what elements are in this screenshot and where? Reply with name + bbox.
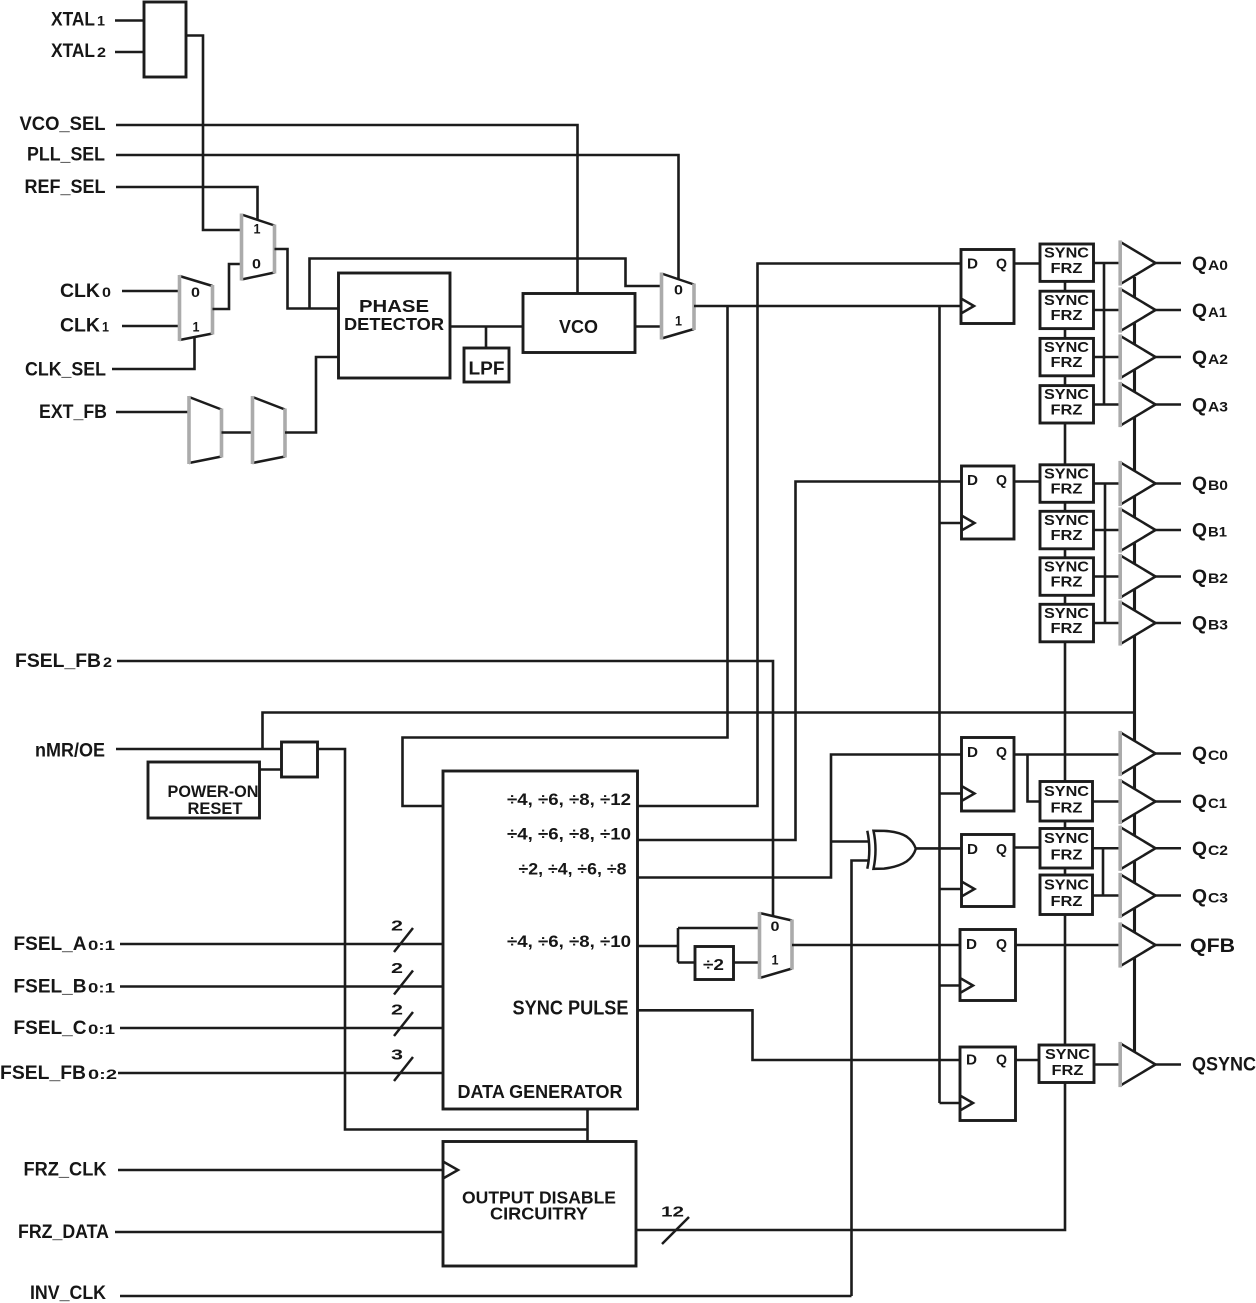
- sync/frz block B1: [1040, 511, 1094, 549]
- sync/frz block B2: [1040, 558, 1094, 596]
- flip-flop FF-B: [962, 466, 1015, 539]
- sync/frz block C2: [1040, 829, 1093, 869]
- output buffer QC1: [1120, 780, 1156, 823]
- svg-text:Q: Q: [1192, 396, 1207, 417]
- wire FF-C1 clock stub: [940, 792, 962, 795]
- crystal oscillator box: [144, 2, 186, 77]
- svg-text:FRZ: FRZ: [1051, 401, 1083, 418]
- svg-text:0: 0: [252, 256, 261, 272]
- wire sync/frz A outputs to buffers: [1094, 262, 1120, 265]
- svg-text:1: 1: [675, 313, 682, 329]
- mux U1 reference select body: [242, 215, 275, 280]
- wire INV_CLK input: [120, 1295, 852, 1298]
- svg-text:Q: Q: [1192, 474, 1207, 495]
- wire sync/frz B outputs to buffers: [1094, 482, 1120, 485]
- wire row4 split vertical: [677, 928, 680, 963]
- svg-text:A2: A2: [1208, 351, 1228, 367]
- VCO box: [523, 294, 635, 353]
- svg-text:1: 1: [193, 319, 200, 335]
- svg-text:INV_CLK: INV_CLK: [30, 1283, 106, 1303]
- svg-text:1: 1: [102, 319, 109, 335]
- svg-text:Q: Q: [1192, 348, 1207, 369]
- svg-text:REF_SEL: REF_SEL: [25, 177, 106, 198]
- svg-text:SYNC: SYNC: [1045, 1046, 1090, 1063]
- svg-text:0: 0: [191, 284, 200, 300]
- svg-text:EXT_FB: EXT_FB: [39, 402, 107, 423]
- svg-text:Q: Q: [996, 256, 1007, 273]
- svg-text:1: 1: [772, 952, 779, 968]
- svg-text:Q: Q: [1192, 301, 1207, 322]
- svg-text:FRZ: FRZ: [1051, 574, 1083, 591]
- divide-by-2 box: [695, 947, 734, 980]
- output buffer QB3: [1120, 601, 1156, 644]
- sync/frz block A1: [1040, 291, 1094, 328]
- wire gate square output to output disable: [318, 749, 588, 1130]
- svg-text:Q: Q: [1192, 839, 1207, 860]
- gate square U6: [282, 742, 318, 777]
- svg-text:Q: Q: [996, 841, 1007, 858]
- output buffer QC2: [1120, 827, 1156, 870]
- svg-text:FRZ: FRZ: [1051, 799, 1083, 816]
- svg-text:SYNC: SYNC: [1044, 830, 1089, 847]
- wire sync/frz C3 output to buffer: [1093, 894, 1120, 897]
- wire row4 to divider select: [638, 945, 679, 948]
- wire FF-B clock stub: [940, 522, 962, 525]
- svg-text:A0: A0: [1208, 257, 1228, 273]
- wire FSEL_C0:1 input: [120, 1027, 443, 1030]
- svg-text:FRZ: FRZ: [1051, 354, 1083, 371]
- bus slash FSEL_B: [394, 971, 413, 995]
- buffer B2 ext feedback body: [253, 397, 286, 463]
- svg-text:B1: B1: [1208, 524, 1227, 540]
- wire QC buffer input bus: [1102, 848, 1105, 895]
- wire QB divider net row2 to QB flipflop D: [638, 482, 962, 841]
- svg-text:FRZ: FRZ: [1051, 307, 1083, 324]
- output buffer QB1: [1120, 508, 1156, 551]
- svg-text:Q: Q: [996, 744, 1007, 761]
- svg-text:2: 2: [391, 960, 403, 977]
- output buffer QSYNC: [1120, 1043, 1156, 1086]
- wire PLL_SEL net: [116, 155, 679, 279]
- wire phase detector output to VCO: [450, 325, 523, 328]
- wire divide-by-2 output to mux U5 input 1: [733, 961, 760, 964]
- wire CLK_SEL net: [112, 337, 195, 369]
- wire VCO_SEL net: [116, 125, 578, 294]
- XOR gate U7: [874, 831, 916, 869]
- svg-text:A1: A1: [1208, 304, 1227, 320]
- wire XOR output to QC flipflop2 D: [916, 847, 962, 850]
- wire sync/frz C2 output to buffer: [1093, 847, 1120, 850]
- svg-text:B2: B2: [1208, 570, 1228, 586]
- wire node ref tee up to bypass line: [310, 259, 662, 309]
- wire 12-bit freeze bus: [636, 1083, 1065, 1231]
- svg-text:Q: Q: [1192, 614, 1207, 635]
- svg-text:Q: Q: [996, 472, 1007, 489]
- svg-text:VCO_SEL: VCO_SEL: [20, 114, 106, 135]
- svg-text:FRZ: FRZ: [1051, 620, 1083, 637]
- svg-text:FRZ: FRZ: [1052, 1062, 1084, 1079]
- svg-text:1: 1: [97, 13, 105, 29]
- svg-text:FSEL_B: FSEL_B: [14, 977, 87, 998]
- wire main clock net from mux U4 to QA flipflop clock: [694, 305, 961, 308]
- output buffer QB2: [1120, 555, 1156, 598]
- svg-text:D: D: [967, 841, 978, 858]
- svg-text:÷2: ÷2: [703, 957, 724, 974]
- mux U4 pll bypass body: [662, 274, 695, 339]
- sync/frz chain vertical QA group: [1064, 281, 1067, 291]
- wire SYNC PULSE net to QSYNC flipflop D: [638, 1010, 961, 1060]
- svg-text:FSEL_A: FSEL_A: [14, 934, 87, 955]
- svg-text:DETECTOR: DETECTOR: [344, 314, 444, 334]
- svg-text:FRZ_CLK: FRZ_CLK: [24, 1160, 107, 1181]
- svg-text:FSEL_C: FSEL_C: [14, 1018, 87, 1039]
- svg-text:DATA GENERATOR: DATA GENERATOR: [458, 1082, 623, 1102]
- svg-text:FRZ: FRZ: [1051, 846, 1083, 863]
- wire XTAL2 input: [115, 51, 144, 54]
- svg-text:1: 1: [254, 221, 261, 237]
- svg-text:QSYNC: QSYNC: [1192, 1055, 1256, 1076]
- wire VCO output to mux U4 input 1: [635, 325, 662, 328]
- wire XOR top input branch: [831, 840, 869, 843]
- svg-text:2: 2: [391, 1002, 403, 1019]
- flip-flop FF-A: [961, 250, 1014, 324]
- wire mux U5 output to QFB flipflop D: [792, 944, 960, 947]
- wire nMR/OE tee to output enable rail: [263, 713, 1135, 750]
- wire EXT_FB input: [116, 411, 189, 414]
- wire FF-C1 Q to QC0 buffer: [1014, 753, 1120, 756]
- svg-text:C3: C3: [1208, 890, 1228, 906]
- svg-text:D: D: [967, 472, 978, 489]
- wire POR to gate square: [260, 768, 282, 771]
- wire FF-SYNC clock stub: [940, 1102, 961, 1105]
- svg-text:0:2: 0:2: [88, 1066, 117, 1082]
- bus slash FSEL_C: [394, 1012, 413, 1036]
- sync/frz block C3: [1040, 875, 1093, 915]
- svg-text:nMR/OE: nMR/OE: [35, 741, 105, 762]
- wire FRZ_CLK input: [118, 1169, 443, 1172]
- svg-text:RESET: RESET: [188, 800, 243, 818]
- wire FSEL_FB2 net to mux U5 select: [117, 661, 773, 918]
- bus slash FSEL_FB: [394, 1057, 413, 1081]
- wire FF-FB clock stub: [940, 984, 961, 987]
- wire nMR/OE input net: [116, 748, 282, 751]
- svg-text:2: 2: [391, 918, 403, 935]
- wire clock riser to data generator: [403, 306, 728, 806]
- svg-text:POWER-ON: POWER-ON: [168, 783, 259, 801]
- svg-text:0:1: 0:1: [88, 937, 115, 953]
- svg-text:FRZ: FRZ: [1051, 893, 1083, 910]
- svg-text:÷4, ÷6, ÷8, ÷12: ÷4, ÷6, ÷8, ÷12: [507, 790, 631, 809]
- svg-text:Q: Q: [1192, 254, 1207, 275]
- svg-text:D: D: [967, 256, 978, 273]
- wire FF-B Q to sync/frz B0: [1014, 480, 1040, 483]
- svg-text:C2: C2: [1208, 842, 1228, 858]
- wire output enable vertical rail: [1133, 277, 1136, 1075]
- svg-text:SYNC: SYNC: [1044, 783, 1089, 800]
- wire FRZ_DATA input: [115, 1231, 443, 1234]
- svg-text:CLK: CLK: [60, 281, 100, 302]
- svg-text:Q: Q: [1192, 521, 1207, 542]
- sync/frz chain QA to QB: [1064, 423, 1067, 465]
- wire FF-SYNC Q to sync/frz S: [1016, 1059, 1040, 1062]
- wire FF-C2 clock stub: [940, 888, 962, 891]
- wire CLK0 input: [122, 290, 180, 293]
- output buffer QC0: [1120, 732, 1156, 775]
- svg-text:0: 0: [102, 284, 111, 300]
- svg-text:PHASE: PHASE: [359, 296, 429, 316]
- svg-text:FRZ: FRZ: [1051, 260, 1083, 277]
- wire row4 direct to mux U5 input 0: [678, 927, 760, 930]
- wire QA divider net row1 to QA flipflop D: [638, 264, 962, 807]
- sync/frz block A3: [1040, 386, 1094, 423]
- svg-text:Q: Q: [1192, 792, 1207, 813]
- svg-text:FRZ: FRZ: [1051, 527, 1083, 544]
- svg-text:Q: Q: [1192, 567, 1207, 588]
- svg-text:FSEL_FB: FSEL_FB: [0, 1063, 86, 1084]
- low pass filter LPF box: [464, 348, 509, 382]
- sync/frz block B0: [1040, 465, 1094, 503]
- wire QB buffer input bus: [1104, 484, 1107, 624]
- svg-text:FRZ_DATA: FRZ_DATA: [18, 1222, 109, 1243]
- svg-text:C1: C1: [1208, 795, 1227, 811]
- flip-flop FF-C1: [962, 738, 1015, 812]
- wire QA buffer input bus: [1103, 263, 1106, 405]
- svg-text:0: 0: [674, 282, 683, 298]
- wire buffer B1 to buffer B2: [222, 431, 253, 434]
- wire FSEL_B0:1 input: [120, 985, 443, 988]
- mux U5 feedback select body: [760, 913, 793, 978]
- wire buffer B2 output to phase detector fb input: [285, 357, 339, 433]
- svg-text:B3: B3: [1208, 617, 1228, 633]
- wire FF-C2 Q to sync/frz C2: [1014, 846, 1040, 849]
- svg-text:XTAL: XTAL: [51, 10, 95, 31]
- data generator box: [443, 771, 638, 1109]
- svg-text:Q: Q: [996, 1052, 1007, 1069]
- svg-text:÷4, ÷6, ÷8, ÷10: ÷4, ÷6, ÷8, ÷10: [507, 932, 631, 951]
- wire FSEL_A0:1 input: [120, 943, 443, 946]
- output buffer QA2: [1120, 335, 1156, 378]
- svg-text:3: 3: [391, 1047, 403, 1064]
- buffer B1 ext feedback body: [189, 397, 222, 463]
- sync/frz chain vertical QC group: [1064, 821, 1067, 829]
- sync/frz block A2: [1040, 338, 1094, 375]
- svg-text:A3: A3: [1208, 399, 1228, 415]
- flip-flop FF-FB: [960, 930, 1016, 1001]
- svg-text:CLK: CLK: [60, 316, 100, 337]
- wire FF-C1 Q branch to sync/frz C1: [1028, 755, 1041, 802]
- svg-text:FRZ: FRZ: [1051, 481, 1083, 498]
- output buffer QA3: [1120, 383, 1156, 426]
- svg-text:CLK_SEL: CLK_SEL: [25, 360, 106, 381]
- wire data generator to output disable vertical: [586, 1109, 589, 1142]
- sync/frz chain QB to QC: [1064, 642, 1067, 782]
- svg-text:0:1: 0:1: [88, 1021, 115, 1037]
- output buffer QC3: [1120, 874, 1156, 917]
- wire INV_CLK riser to XOR bottom input: [852, 861, 870, 1297]
- svg-text:D: D: [966, 936, 977, 953]
- output buffer QFB: [1120, 923, 1156, 966]
- wire row4 to divide-by-2: [678, 961, 695, 964]
- wire REF_SEL net: [116, 187, 258, 220]
- wire mux U1 output to phase detector ref input: [275, 249, 339, 309]
- svg-text:SYNC: SYNC: [1044, 877, 1089, 894]
- svg-text:Q: Q: [996, 936, 1007, 953]
- sync/frz block A0: [1040, 244, 1094, 281]
- bus slash FSEL_A: [394, 928, 413, 952]
- wire XTAL1 input: [115, 19, 144, 22]
- output buffer QA0: [1120, 241, 1156, 284]
- wire clock bus vertical: [938, 306, 941, 1103]
- flip-flop FF-C2: [962, 835, 1015, 907]
- wire sync/frz C1 output to buffer: [1093, 800, 1120, 803]
- sync/frz block S: [1039, 1045, 1094, 1083]
- phase detector U3: [339, 273, 451, 378]
- wire FF-A Q to sync/frz A0: [1014, 262, 1040, 265]
- sync/frz block B3: [1040, 604, 1094, 642]
- svg-text:C0: C0: [1208, 747, 1228, 763]
- svg-text:LPF: LPF: [469, 359, 505, 379]
- sync/frz block C1: [1040, 782, 1093, 822]
- sync/frz chain QC to QSYNC: [1064, 915, 1067, 1046]
- output disable circuitry box: [443, 1142, 636, 1267]
- wire FF-FB Q to QFB buffer: [1016, 944, 1120, 947]
- svg-text:FSEL_FB: FSEL_FB: [15, 651, 101, 672]
- svg-text:12: 12: [661, 1204, 684, 1221]
- wire FSEL_FB0:2 input: [118, 1072, 443, 1075]
- svg-text:PLL_SEL: PLL_SEL: [27, 145, 105, 166]
- svg-text:Q: Q: [1192, 887, 1207, 908]
- svg-text:D: D: [966, 1052, 977, 1069]
- sync/frz chain vertical QB group: [1064, 502, 1067, 511]
- power-on reset box: [148, 762, 260, 818]
- svg-text:D: D: [967, 744, 978, 761]
- svg-text:CIRCUITRY: CIRCUITRY: [490, 1204, 588, 1224]
- svg-text:SYNC PULSE: SYNC PULSE: [513, 998, 629, 1020]
- wire QC divider net row3 to QC flipflop D: [638, 755, 962, 878]
- clock wedge output disable: [443, 1162, 458, 1179]
- bus slash 12: [662, 1217, 689, 1244]
- svg-text:2: 2: [97, 44, 106, 60]
- wire CLK1 input: [122, 325, 180, 328]
- svg-text:2: 2: [103, 654, 112, 670]
- output buffer QA1: [1120, 288, 1156, 331]
- wire sync/frz S output to QSYNC buffer: [1094, 1063, 1120, 1066]
- svg-text:XTAL: XTAL: [51, 41, 95, 62]
- mux U2 clock select body: [180, 276, 213, 340]
- wire mux U2 output to mux U1 input 0: [213, 264, 242, 309]
- wire xtal output to mux U1 input 1: [186, 36, 242, 231]
- svg-text:QFB: QFB: [1190, 936, 1235, 957]
- svg-text:VCO: VCO: [559, 317, 598, 337]
- svg-text:Q: Q: [1192, 744, 1207, 765]
- flip-flop FF-SYNC: [960, 1047, 1016, 1121]
- svg-text:0:1: 0:1: [88, 980, 115, 996]
- svg-text:÷2, ÷4, ÷6, ÷8: ÷2, ÷4, ÷6, ÷8: [519, 860, 627, 879]
- svg-text:0: 0: [771, 918, 780, 934]
- svg-text:÷4, ÷6, ÷8, ÷10: ÷4, ÷6, ÷8, ÷10: [507, 825, 631, 844]
- output buffer QB0: [1120, 462, 1156, 505]
- svg-text:B0: B0: [1208, 477, 1228, 493]
- wire LPF stub: [485, 327, 488, 349]
